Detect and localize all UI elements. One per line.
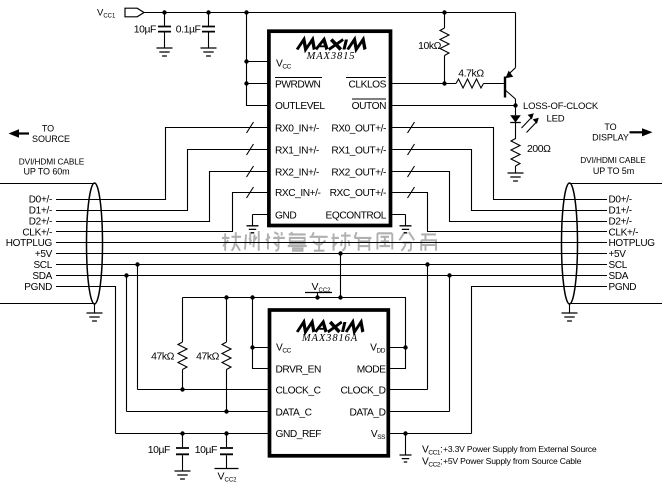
svg-text:47kΩ: 47kΩ <box>151 352 175 363</box>
svg-text:RX0_IN+/-: RX0_IN+/- <box>275 124 319 135</box>
svg-text:DRVR_EN: DRVR_EN <box>276 365 321 376</box>
svg-text:10kΩ: 10kΩ <box>418 41 442 52</box>
svg-text:200Ω: 200Ω <box>527 144 551 155</box>
svg-text:HOTPLUG: HOTPLUG <box>6 238 53 249</box>
svg-text:PGND: PGND <box>609 282 637 293</box>
svg-text:10µF: 10µF <box>134 25 156 36</box>
svg-text:MAX3815: MAX3815 <box>306 51 356 62</box>
svg-text:D2+/-: D2+/- <box>609 217 632 228</box>
svg-text:RXC_OUT+/-: RXC_OUT+/- <box>330 188 386 199</box>
svg-text:SCL: SCL <box>609 260 628 271</box>
svg-text:OUTON: OUTON <box>352 101 386 112</box>
svg-text:SDA: SDA <box>609 271 629 282</box>
svg-text:SCL: SCL <box>33 260 52 271</box>
svg-text:DISPLAY: DISPLAY <box>592 133 629 143</box>
svg-text:D1+/-: D1+/- <box>29 206 52 217</box>
svg-text:UP TO 60m: UP TO 60m <box>23 167 69 177</box>
svg-text:+5V: +5V <box>35 249 53 260</box>
svg-text:DATA_D: DATA_D <box>350 408 386 419</box>
svg-text:MODE: MODE <box>357 365 386 376</box>
svg-text:TO: TO <box>42 124 54 134</box>
svg-text:47kΩ: 47kΩ <box>196 352 220 363</box>
svg-text:CLK+/-: CLK+/- <box>609 228 639 239</box>
svg-text:RX2_OUT+/-: RX2_OUT+/- <box>331 168 386 179</box>
svg-text:RX1_OUT+/-: RX1_OUT+/- <box>331 146 386 157</box>
svg-text:SOURCE: SOURCE <box>32 134 70 144</box>
svg-text:EQCONTROL: EQCONTROL <box>326 211 387 222</box>
svg-text:RX1_IN+/-: RX1_IN+/- <box>275 146 319 157</box>
svg-text:0.1µF: 0.1µF <box>176 25 201 36</box>
svg-text:GND_REF: GND_REF <box>276 429 322 440</box>
svg-text:RX2_IN+/-: RX2_IN+/- <box>275 168 319 179</box>
svg-text:LOSS-OF-CLOCK: LOSS-OF-CLOCK <box>523 101 599 112</box>
svg-text:CLKLOS: CLKLOS <box>348 80 386 91</box>
svg-text:PWRDWN: PWRDWN <box>275 80 320 91</box>
svg-text:SDA: SDA <box>32 271 52 282</box>
svg-text:CLOCK_D: CLOCK_D <box>341 386 386 397</box>
svg-text:MAX3816A: MAX3816A <box>301 333 358 344</box>
svg-text:TO: TO <box>604 122 616 132</box>
svg-text:D0+/-: D0+/- <box>609 195 632 206</box>
svg-text:DATA_C: DATA_C <box>276 408 312 419</box>
svg-text:UP TO 5m: UP TO 5m <box>593 166 634 176</box>
svg-text:4.7kΩ: 4.7kΩ <box>458 69 484 80</box>
svg-text:10µF: 10µF <box>195 445 217 456</box>
svg-text:+3.3V Power Supply from Extern: +3.3V Power Supply from External Source <box>443 444 597 454</box>
svg-text:RX0_OUT+/-: RX0_OUT+/- <box>331 124 386 135</box>
svg-text:LED: LED <box>547 114 565 125</box>
svg-text:PGND: PGND <box>24 282 52 293</box>
svg-text:CLK+/-: CLK+/- <box>22 228 52 239</box>
svg-text:+5V: +5V <box>609 249 627 260</box>
svg-text:OUTLEVEL: OUTLEVEL <box>275 101 325 112</box>
svg-text:DVI/HDMI CABLE: DVI/HDMI CABLE <box>580 155 646 165</box>
svg-text:RXC_IN+/-: RXC_IN+/- <box>275 188 321 199</box>
svg-text:HOTPLUG: HOTPLUG <box>609 238 656 249</box>
svg-text:10µF: 10µF <box>148 445 170 456</box>
svg-text:DVI/HDMI CABLE: DVI/HDMI CABLE <box>19 157 85 167</box>
svg-text:D1+/-: D1+/- <box>609 206 632 217</box>
svg-text:D0+/-: D0+/- <box>29 195 52 206</box>
svg-text:CLOCK_C: CLOCK_C <box>276 386 321 397</box>
svg-text:+5V Power Supply from Source C: +5V Power Supply from Source Cable <box>443 456 582 466</box>
svg-text:GND: GND <box>275 211 296 222</box>
svg-text:D2+/-: D2+/- <box>29 217 52 228</box>
